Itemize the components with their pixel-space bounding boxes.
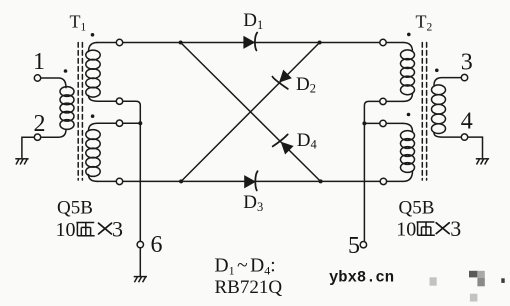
- svg-text:10: 10: [56, 219, 76, 241]
- T1 secondary bottom winding: [86, 123, 141, 181]
- junction top-right (top rail / D2 diagonal): [318, 41, 322, 45]
- terminal pin 3: [461, 74, 467, 80]
- diode D4 (on falling diagonal, pointing up-left): [273, 134, 293, 153]
- svg-text:Q5B: Q5B: [399, 198, 435, 219]
- wire pin4 to ground: [468, 137, 483, 157]
- CJK glyph (turns) in right value label: [417, 222, 435, 235]
- multiplication sign in right value label: [436, 223, 449, 234]
- terminal pin 5: [360, 242, 366, 248]
- CJK glyph (turns) in left value label: [76, 223, 94, 236]
- junction top-left (top rail / D4 diagonal): [179, 41, 183, 45]
- terminal T1 top tap: [116, 39, 122, 45]
- T2 secondary winding (right coil, pins 3-4): [432, 78, 462, 138]
- wire T2 center tap upper branch down to pin 5: [364, 101, 403, 241]
- svg-text:ybx8.cn: ybx8.cn: [329, 269, 394, 287]
- junction T1 center tap: [138, 121, 142, 125]
- junction bottom-right (bottom rail / D4 diagonal): [319, 179, 323, 183]
- polarity dot T1 secondary bottom: [91, 114, 95, 118]
- terminal pin 1: [34, 75, 40, 81]
- polarity dot T2 secondary: [435, 69, 439, 73]
- wire diagonal carrying D4 (top-left junction to bottom-right junction): [181, 43, 321, 182]
- wire T1 center tap upper branch down to pin 6: [98, 101, 141, 241]
- svg-text:Q5B: Q5B: [57, 198, 93, 219]
- svg-text:2: 2: [34, 111, 46, 137]
- terminal pin 2: [34, 134, 40, 140]
- svg-text:RB721Q: RB721Q: [215, 277, 283, 298]
- diode D2 (on rising diagonal, pointing down-left): [272, 71, 291, 89]
- svg-text:3: 3: [112, 216, 123, 241]
- terminal T1 bottom tap: [116, 178, 122, 184]
- ground at pin 2: [15, 159, 28, 165]
- polarity dot T2 primary bottom: [407, 113, 411, 117]
- terminal T1 mid tap upper: [116, 98, 122, 104]
- diode D3: [245, 171, 258, 190]
- polarity dot T1 primary: [64, 69, 68, 73]
- transformer T2 core (two dashed lines): [422, 43, 426, 181]
- svg-text:3: 3: [450, 216, 461, 241]
- terminal T2 mid tap upper: [380, 98, 386, 104]
- multiplication sign in left value label: [99, 223, 112, 234]
- junction bottom-left (bottom rail / D2 diagonal): [179, 179, 183, 183]
- ground at pin 6: [134, 277, 147, 283]
- svg-text:4: 4: [461, 109, 473, 135]
- junction T2 center tap: [362, 121, 366, 125]
- svg-text:5: 5: [348, 233, 360, 259]
- wire top rail (T1 top coil to T2 top coil through D1): [97, 42, 403, 44]
- T1 primary winding (left coil, pins 1-2): [41, 78, 74, 137]
- terminal pin 6: [137, 241, 143, 247]
- terminal T2 top tap: [380, 39, 386, 45]
- ground at pin 4: [476, 159, 489, 165]
- terminal T1 mid tap lower: [116, 120, 122, 126]
- wire bottom rail (T1 bottom coil to T2 bottom coil through D3): [97, 180, 403, 182]
- diode D1: [244, 33, 257, 51]
- wire diagonal carrying D2 (bottom-left junction to top-right junction): [181, 43, 320, 182]
- svg-text:10: 10: [396, 219, 416, 241]
- svg-text:6: 6: [151, 232, 163, 258]
- pixelated censor blocks bottom-right: [430, 271, 505, 302]
- polarity dot T2 primary top: [407, 33, 411, 37]
- transformer T1 core (two dashed lines): [78, 43, 82, 181]
- svg-text:1: 1: [33, 49, 45, 75]
- T2 primary bottom winding: [364, 123, 414, 181]
- svg-text:3: 3: [461, 50, 473, 76]
- terminal T2 mid tap lower: [380, 120, 386, 126]
- T2 primary top winding: [401, 43, 415, 102]
- polarity dot T1 secondary top: [91, 33, 95, 37]
- terminal T2 bottom tap: [380, 178, 386, 184]
- terminal pin 4: [461, 134, 467, 140]
- wire pin6 stem below circle to ground: [139, 248, 141, 276]
- wire pin2 to ground: [22, 137, 34, 157]
- T1 secondary top winding: [86, 43, 100, 102]
